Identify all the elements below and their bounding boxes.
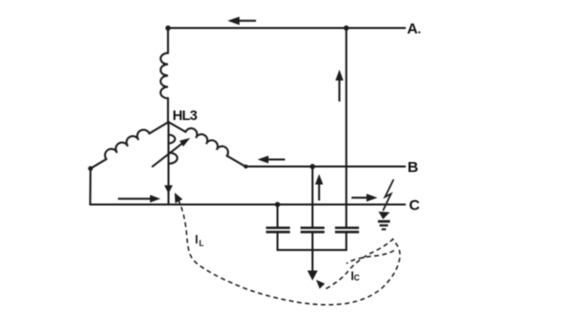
svg-text:A: A xyxy=(407,21,418,38)
svg-text:HL3: HL3 xyxy=(173,107,198,123)
svg-text:I: I xyxy=(195,235,198,247)
svg-text:B: B xyxy=(408,159,419,176)
svg-text:C: C xyxy=(409,197,420,214)
svg-text:C: C xyxy=(354,274,360,283)
svg-text:L: L xyxy=(199,239,204,248)
